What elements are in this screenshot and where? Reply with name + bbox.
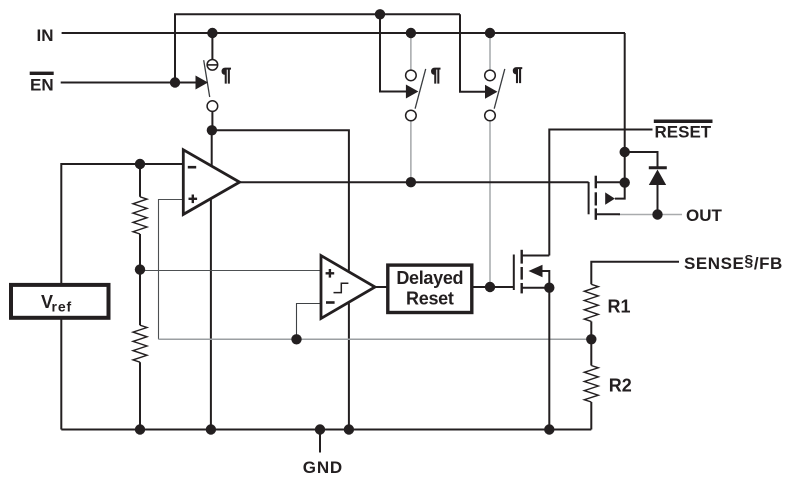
junction dot GND comparator — [344, 424, 354, 434]
junction dot S1 output node — [207, 125, 217, 135]
switch S3 — [485, 69, 505, 121]
wire feedback tap line (gray) — [159, 338, 592, 340]
comparator U2 — [321, 256, 375, 319]
wire comparator ground — [348, 303, 350, 429]
junction dot IN/S2 — [406, 28, 416, 38]
transistor Q2 NMOS reset pulldown — [514, 250, 550, 294]
wire S2 bottom to amp output (gray) — [410, 121, 412, 183]
svg-text:¶: ¶ — [513, 65, 523, 85]
junction dot amp output / S2 — [406, 177, 416, 187]
wire error amp ground — [210, 200, 212, 430]
svg-text:IN: IN — [37, 26, 54, 45]
resistor R1 — [584, 284, 598, 321]
wire R2 bottom to ground — [590, 402, 592, 430]
junction dot diode branch — [620, 147, 630, 157]
wire S1 node to comparator supply — [212, 130, 349, 270]
wire IN down to PMOS — [624, 33, 626, 183]
transistor Q1 PMOS pass element — [589, 176, 625, 220]
wire GND bus — [61, 429, 591, 431]
wire SENSE/FB to R1 — [591, 262, 679, 285]
wire S3 bottom to reset gate node (gray) — [489, 121, 491, 288]
svg-text:EN: EN — [30, 76, 54, 95]
wire comparator plus input (gray) — [140, 270, 321, 272]
wire switch S3 drive — [460, 14, 486, 92]
junction dot PMOS source node — [620, 177, 630, 187]
op-amp U1 error amplifier — [183, 150, 239, 215]
junction dot OUT node — [652, 209, 662, 219]
svg-text:RESET: RESET — [655, 123, 712, 142]
junction dot R1/R2 feedback tap — [586, 334, 596, 344]
wire divider chain top — [139, 164, 141, 197]
svg-text:SENSE§/FB: SENSE§/FB — [684, 253, 783, 273]
wire error amp output to PMOS gate — [240, 181, 589, 183]
wire comparator minus input (gray) — [297, 304, 322, 340]
wire divider chain middle — [139, 234, 141, 325]
svg-text:R1: R1 — [608, 296, 631, 316]
svg-text:Delayed: Delayed — [396, 268, 463, 288]
wire divider chain bottom — [139, 362, 141, 429]
svg-text:R2: R2 — [609, 376, 632, 396]
svg-text:Reset: Reset — [406, 289, 454, 309]
svg-text:ref: ref — [52, 298, 73, 314]
junction dot IN/S3 — [485, 28, 495, 38]
net label EN with overline — [30, 72, 54, 95]
wire R1 bottom — [590, 321, 592, 339]
wire RESET net — [549, 130, 652, 256]
wire Vref bottom to ground — [60, 320, 62, 430]
junction dot GND stub — [315, 424, 325, 434]
wire IN bus — [62, 32, 625, 34]
wire switch S2 drive — [380, 14, 407, 91]
wire S2 top to IN (gray) — [410, 33, 412, 71]
junction dot EN bus/S2 drive — [375, 9, 385, 19]
switch S1 — [196, 60, 218, 112]
wire Vref to inverting input — [61, 164, 183, 283]
svg-text:GND: GND — [303, 458, 343, 477]
wire diode anode to OUT — [657, 184, 659, 215]
net label RESET with overline — [654, 120, 713, 142]
wire comparator output to delayed reset — [374, 286, 387, 288]
resistor (divider lower) — [133, 325, 147, 362]
junction dot GND NMOS — [544, 424, 554, 434]
junction dot reset gate node / S3 — [485, 282, 495, 292]
Vref block — [11, 285, 109, 318]
junction dot GND error amp — [206, 424, 216, 434]
resistor R2 — [584, 366, 598, 403]
diode D1 — [649, 168, 667, 185]
wire error amp supply — [211, 130, 213, 166]
wire delayed reset output to NMOS gate — [473, 286, 514, 288]
svg-text:¶: ¶ — [221, 65, 231, 85]
junction dot NMOS source node — [544, 283, 554, 293]
wire PMOS drain to OUT (gray) — [618, 214, 682, 216]
wire top EN distribution bus — [175, 14, 460, 82]
wire EN bus — [61, 82, 199, 84]
junction dot EN/vertical — [170, 77, 180, 87]
wire NMOS source to ground — [548, 288, 550, 430]
delayed reset block U3 — [388, 265, 472, 312]
wire S1 top to IN — [211, 33, 213, 60]
junction dot divider mid / comparator plus — [135, 264, 145, 274]
svg-text:OUT: OUT — [686, 206, 723, 225]
svg-text:¶: ¶ — [431, 65, 441, 85]
switch S2 — [406, 69, 426, 121]
wire diode branch — [625, 152, 658, 168]
wire R2 top — [590, 339, 592, 365]
wire S3 top to IN (gray) — [489, 33, 491, 71]
junction dot feedback / comparator minus — [291, 334, 301, 344]
wire non-inverting input feedback (gray) — [159, 200, 184, 340]
resistor (divider upper) — [133, 197, 147, 234]
wire GND stub — [319, 430, 321, 453]
wire S1 bottom — [211, 111, 213, 130]
junction dot IN/S1 — [207, 28, 217, 38]
junction dot GND divider — [135, 424, 145, 434]
junction dot divider top / inverting input — [135, 159, 145, 169]
